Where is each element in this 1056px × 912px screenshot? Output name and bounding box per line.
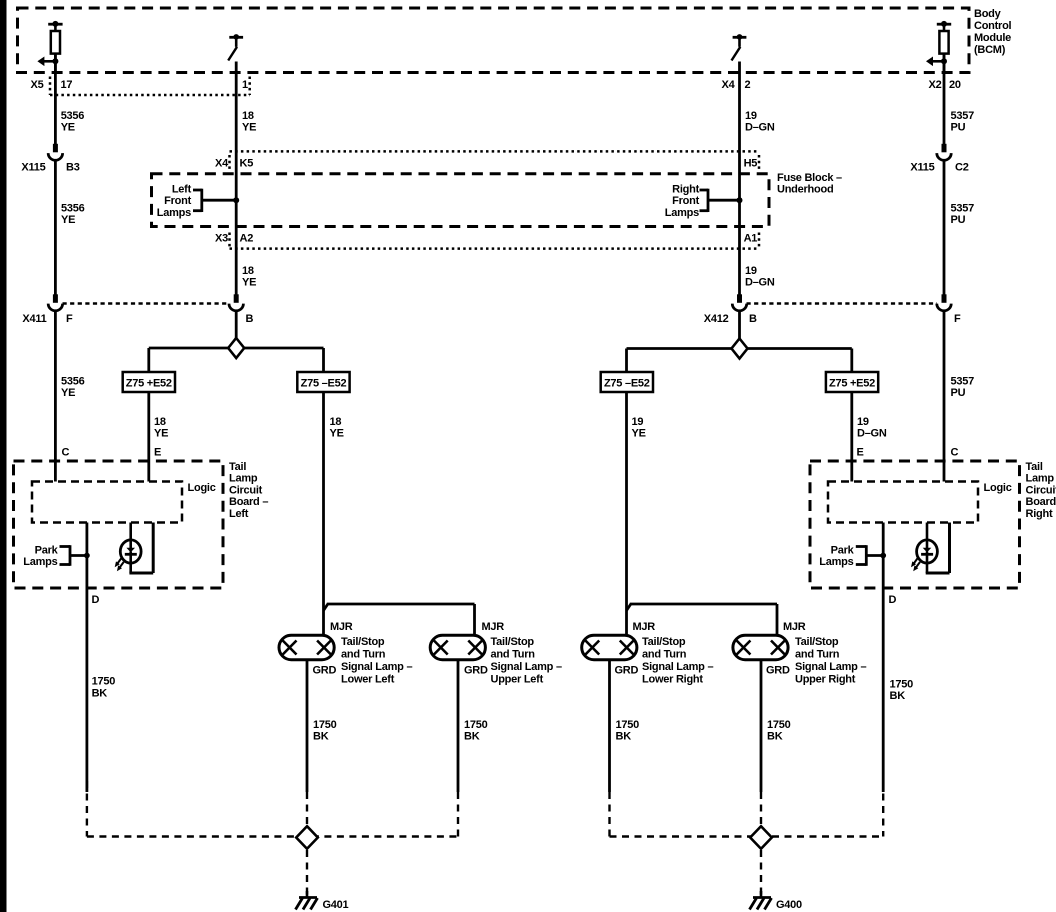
outer dashed box left board [14,461,224,588]
ground G400 [750,891,772,910]
svg-text:Board –: Board – [1026,496,1056,508]
svg-text:X412: X412 [704,313,729,325]
svg-text:BK: BK [92,687,108,699]
Fuse Block - Underhood dashed box [152,174,770,227]
svg-text:MJR: MJR [330,621,353,633]
svg-text:Tail: Tail [229,461,246,473]
svg-text:and Turn: and Turn [491,649,536,661]
wire label 1750 BK (upper right) [767,719,791,743]
lamp label lower right [642,636,713,686]
svg-text:F: F [66,313,73,325]
wire colD X412 to right board [943,312,946,482]
svg-text:GRD: GRD [313,665,337,677]
svg-text:PU: PU [951,387,966,399]
svg-text:BK: BK [313,731,329,743]
svg-text:2: 2 [745,79,751,91]
BCM label [974,8,1012,56]
tail/stop lamp upper right [733,635,788,659]
svg-text:B: B [246,313,254,325]
dashed stub to ground left [306,850,308,897]
svg-text:and Turn: and Turn [642,649,687,661]
branch wire to Z75 +E52 [147,348,150,373]
svg-text:BK: BK [464,731,480,743]
wire colA X411 to left board [54,312,57,482]
ground wire lamp upper left [457,660,460,792]
svg-text:Signal Lamp –: Signal Lamp – [491,661,562,673]
component box Z75 +E52 (right) [826,372,878,392]
svg-text:YE: YE [61,387,75,399]
junction node on colB in fuse block [233,197,239,203]
logic dashed box left [32,482,182,523]
svg-text:YE: YE [61,214,75,226]
component box Z75 +E52 (left) [123,372,175,392]
svg-text:BK: BK [767,731,783,743]
ground splice diamond right [750,826,772,849]
wire colA segment BCM to X115 [54,54,57,145]
svg-text:Tail/Stop: Tail/Stop [341,636,385,648]
left page edge black bar [0,0,7,912]
svg-text:X411: X411 [22,313,46,325]
wire label 5357 PU (fourth) [951,375,975,399]
svg-text:D–GN: D–GN [745,277,775,289]
dashed ground bus left [87,835,458,837]
svg-text:18: 18 [154,416,166,428]
wire colC X412-B down to splice [738,312,741,341]
svg-text:Lower Left: Lower Left [341,674,395,686]
X3 A2 A1 labels [215,233,757,245]
svg-text:E: E [857,447,864,459]
svg-text:YE: YE [242,277,256,289]
svg-text:Fuse Block –: Fuse Block – [777,172,842,184]
dashed wire lamp lower right [608,792,610,837]
svg-text:Right: Right [672,183,699,195]
ground wire lamp lower right [608,660,611,792]
park lamps output wire right board [882,523,885,793]
wire label 1750 BK (upper left) [464,719,488,743]
X412 B F labels [704,313,961,325]
tail/stop lamp lower right [582,635,637,659]
connector X412 link dashed line [747,302,938,304]
wire label 1750 BK (right D wire) [890,679,914,703]
svg-text:18: 18 [242,265,254,277]
wire label 18 YE (branch E) [154,416,168,440]
junction node on colC in fuse block [737,197,743,203]
svg-text:C2: C2 [955,162,969,174]
switch symbol inside BCM, right (col X4-2) [732,34,747,60]
svg-text:Lamps: Lamps [157,207,191,219]
in-line connector X412 pin F [937,294,951,311]
svg-text:Circuit: Circuit [1026,484,1056,496]
splice diamond left [228,338,244,358]
svg-text:X2: X2 [929,79,942,91]
svg-text:19: 19 [857,416,869,428]
Left Front Lamps bracket [193,189,236,212]
svg-text:K5: K5 [240,158,254,170]
svg-text:D: D [92,594,100,606]
svg-text:5356: 5356 [61,375,85,387]
svg-text:E: E [154,447,161,459]
svg-text:YE: YE [154,427,168,439]
svg-text:A2: A2 [240,233,254,245]
svg-text:X115: X115 [21,162,45,174]
fuse symbol inside BCM, left (col X5-17) [37,21,62,73]
svg-text:Z75 +E52: Z75 +E52 [829,378,875,390]
connector X5 dotted outline [50,77,250,96]
right board label [1026,461,1056,520]
ground wire lamp lower left [306,660,309,792]
svg-text:Front: Front [672,195,699,207]
svg-text:G400: G400 [776,899,802,911]
switch symbol inside BCM, left (col 1) [228,34,243,60]
branch wire to Z75 +E52 (right) [850,349,853,374]
park lamps output wire left board [86,523,89,793]
connector X3 dotted row (fuse block bottom) [230,233,760,249]
LED indicator right board [911,523,950,574]
Fuse Block label [777,172,842,196]
svg-text:Left: Left [229,508,249,520]
svg-text:X3: X3 [215,233,228,245]
in-line connector X411 pin B [229,294,243,311]
svg-text:17: 17 [61,79,73,91]
junction node park lamps left [84,553,90,559]
svg-text:GRD: GRD [766,665,790,677]
ground wire lamp upper right [760,660,763,792]
tail/stop lamp upper left [430,635,485,659]
dashed wire D right [882,781,884,837]
Right Front Lamps label [665,183,700,218]
svg-text:5356: 5356 [61,203,85,215]
splice diamond right [732,339,748,359]
svg-text:YE: YE [632,427,646,439]
wire label 5356 YE (top left) [61,110,85,134]
wire Z75+E52 to left board pin E [147,392,150,482]
wire label 18 YE (branch MJR) [330,416,344,440]
wire colC segment switch to X412 [738,62,741,295]
svg-text:Board –: Board – [229,496,268,508]
wire label 19 D-GN (below fuse block) [745,265,775,289]
svg-text:Z75 +E52: Z75 +E52 [126,378,172,390]
svg-text:Lower Right: Lower Right [642,674,703,686]
connector X4 dotted row (fuse block top) [230,151,760,169]
component box Z75 -E52 (right) [601,372,653,392]
wire colD X115 to X412 [943,162,946,295]
svg-text:B: B [749,313,757,325]
wire label 18 YE (below fuse block) [242,265,256,289]
svg-text:YE: YE [330,427,344,439]
svg-text:Z75 –E52: Z75 –E52 [604,378,650,390]
svg-text:and Turn: and Turn [795,649,840,661]
svg-text:Control: Control [974,20,1012,32]
X115 B3 labels [21,162,79,174]
svg-text:5357: 5357 [951,203,975,215]
svg-text:BK: BK [890,690,906,702]
svg-text:Signal Lamp –: Signal Lamp – [642,661,713,673]
X411 F B labels [22,313,253,325]
junction node park lamps right [880,553,886,559]
Park Lamps label right [819,545,854,569]
svg-text:19: 19 [745,110,757,122]
svg-text:1750: 1750 [313,719,337,731]
svg-text:and Turn: and Turn [341,649,386,661]
in-line connector X115 pin C2 [937,144,951,161]
svg-text:Right: Right [1026,508,1053,520]
component box Z75 -E52 (left) [297,372,349,392]
svg-text:Park: Park [35,545,59,557]
svg-text:(BCM): (BCM) [974,44,1006,56]
svg-text:20: 20 [949,79,961,91]
svg-text:MJR: MJR [482,621,505,633]
svg-text:Lamp: Lamp [229,473,258,485]
svg-text:Left: Left [172,183,192,195]
svg-text:Tail/Stop: Tail/Stop [795,636,839,648]
svg-text:BK: BK [616,731,632,743]
svg-text:X4: X4 [722,79,736,91]
dashed stub to ground right [760,850,762,897]
svg-text:MJR: MJR [783,621,806,633]
svg-text:19: 19 [632,416,644,428]
splice branch line right [627,347,852,350]
wire label 1750 BK (left D wire) [92,676,116,700]
svg-text:Circuit: Circuit [229,484,263,496]
Park Lamps bracket left [60,545,87,566]
svg-text:5357: 5357 [951,110,975,122]
svg-text:Upper Right: Upper Right [795,674,856,686]
svg-text:Underhood: Underhood [777,184,833,196]
tail/stop lamp lower left [279,635,334,659]
svg-text:Body: Body [974,8,1002,20]
svg-text:MJR: MJR [633,621,656,633]
wire label 19 YE [632,416,646,440]
wire label 19 D-GN (branch E) [857,416,887,440]
wire colB X411-B down to splice [235,312,238,340]
Left Front Lamps label [157,183,192,218]
wire colA X115 to X411 [54,162,57,295]
svg-text:GRD: GRD [615,665,639,677]
dashed ground bus right [610,835,884,837]
in-line connector X115 pin B3 [48,144,62,161]
svg-text:1750: 1750 [616,719,640,731]
LED indicator left board [115,523,154,574]
wire Z75-E52 (right) down to lamps [625,392,628,636]
svg-text:PU: PU [951,122,966,134]
svg-text:Tail/Stop: Tail/Stop [642,636,686,648]
X115 C2 labels [910,162,968,174]
svg-text:X4: X4 [215,158,229,170]
svg-text:18: 18 [242,110,254,122]
svg-text:Tail: Tail [1026,461,1043,473]
wire colB segment switch to X411 [235,62,238,295]
fuse symbol inside BCM, right (col X2-20) [926,21,951,73]
branch wire to Z75 -E52 [322,348,325,373]
ground splice diamond left [296,826,318,849]
svg-text:Lamp: Lamp [1026,473,1055,485]
svg-text:Module: Module [974,32,1011,44]
svg-text:Upper Left: Upper Left [491,674,544,686]
wire label 5356 YE (second) [61,203,85,227]
svg-text:1: 1 [242,79,248,91]
logic dashed box right [828,482,978,523]
svg-text:Z75 –E52: Z75 –E52 [301,378,347,390]
wire label 5356 YE (fourth) [61,375,85,399]
lamp label lower left [341,636,412,686]
svg-text:G401: G401 [323,899,349,911]
Park Lamps label left [23,545,58,569]
wire label 19 D-GN (top) [745,110,775,134]
svg-text:H5: H5 [744,158,758,170]
outer dashed box right board [810,461,1020,588]
svg-text:1750: 1750 [464,719,488,731]
svg-text:X5: X5 [31,79,44,91]
branch wire to Z75 -E52 (right) [625,349,628,374]
svg-text:C: C [62,447,70,459]
wire colD segment BCM to X115 [943,54,946,145]
in-line connector X412 pin B [732,294,746,311]
svg-text:Signal Lamp –: Signal Lamp – [795,661,866,673]
svg-text:Front: Front [164,195,191,207]
dashed wire lamp lower left [306,792,308,826]
ground G401 [296,891,318,910]
wire label 18 YE (top) [242,110,256,134]
left board label [229,461,268,520]
lamp label upper left [491,636,562,686]
svg-text:5357: 5357 [951,375,975,387]
svg-text:D–GN: D–GN [745,122,775,134]
svg-text:YE: YE [61,122,75,134]
svg-text:Lamps: Lamps [23,556,57,568]
svg-text:GRD: GRD [464,665,488,677]
svg-text:Park: Park [831,545,855,557]
svg-text:5356: 5356 [61,110,85,122]
connector X411 link dashed line [63,302,230,304]
wire Z75-E52 down to lamps [322,392,325,636]
svg-text:1750: 1750 [890,679,914,691]
svg-text:Lamps: Lamps [665,207,699,219]
svg-text:18: 18 [330,416,342,428]
dashed wire D left [86,781,88,837]
Y branch left [324,604,475,636]
wire label 1750 BK (lower right) [616,719,640,743]
svg-text:1750: 1750 [92,676,116,688]
svg-text:B3: B3 [66,162,80,174]
svg-text:D–GN: D–GN [857,427,887,439]
X4 K5 H5 labels [215,158,757,170]
svg-text:Signal Lamp –: Signal Lamp – [341,661,412,673]
svg-text:Tail/Stop: Tail/Stop [491,636,535,648]
svg-text:Logic: Logic [984,482,1012,494]
svg-text:Logic: Logic [188,482,216,494]
connector X5 labels row [31,79,961,91]
svg-text:X115: X115 [910,162,934,174]
wire Z75+E52 (right) to right board pin E [850,392,853,482]
Park Lamps bracket right [856,545,883,566]
Body Control Module (BCM) dashed box [18,8,970,73]
svg-text:1750: 1750 [767,719,791,731]
svg-text:A1: A1 [744,233,758,245]
Right Front Lamps bracket [700,189,740,212]
svg-text:F: F [954,313,961,325]
splice branch line left [149,347,324,350]
svg-text:PU: PU [951,214,966,226]
svg-text:YE: YE [242,122,256,134]
wire label 5357 PU (top right) [951,110,975,134]
wire label 5357 PU (second) [951,203,975,227]
svg-text:C: C [951,447,959,459]
svg-text:Lamps: Lamps [819,556,853,568]
lamp label upper right [795,636,866,686]
dashed wire lamp upper right [760,792,762,826]
svg-text:19: 19 [745,265,757,277]
svg-text:D: D [889,594,897,606]
Y branch right [627,604,778,636]
in-line connector X411 pin F [48,294,62,311]
wire label 1750 BK (lower left) [313,719,337,743]
dashed wire lamp upper left [457,792,459,837]
